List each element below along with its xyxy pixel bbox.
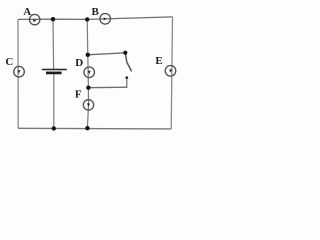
wire left edge (17, 19, 19, 128)
svg-text:B: B (92, 6, 100, 18)
lamp A (circle with arrow) (30, 14, 40, 24)
wire switch lower (from stub back to middle branch) (88, 86, 127, 89)
label E (155, 55, 162, 67)
svg-text:D: D (75, 57, 83, 69)
label A (23, 6, 31, 18)
junction dot (bottom wire, battery branch) (52, 126, 56, 130)
junction dot (middle branch, switch upper wire) (86, 53, 90, 57)
wire top (left corner to right corner) (18, 17, 173, 20)
label D (75, 57, 83, 69)
wire battery branch lower (53, 73, 55, 128)
svg-text:F: F (75, 89, 82, 101)
junction dot (top wire, middle branch) (85, 17, 89, 21)
wire battery branch upper (52, 19, 55, 69)
label B (92, 6, 100, 18)
wire right edge (171, 17, 172, 129)
lamp D (circle with arrow) (84, 67, 95, 78)
wire switch upper (to switch top terminal) (88, 53, 126, 55)
battery B1 (cell: long top plate, short thick bottom plate) (42, 70, 67, 73)
label F (75, 89, 82, 101)
switch S1 lower terminal stub (125, 76, 128, 87)
lamp C (circle with arrow) (14, 66, 25, 77)
wire middle branch (through D and F) (87, 19, 88, 128)
svg-text:C: C (5, 56, 13, 68)
junction dot (bottom wire, middle branch) (85, 126, 89, 130)
switch S1 (open knife switch) blade (125, 53, 131, 71)
lamp E (circle with arrow) (165, 66, 176, 77)
wire bottom (18, 127, 171, 130)
junction dot (switch top terminal) (123, 51, 127, 55)
junction dot (top wire, battery branch) (51, 17, 55, 21)
label C (5, 56, 13, 68)
svg-text:E: E (155, 55, 162, 67)
lamp B (circle with arrow) (100, 13, 111, 24)
junction dot (middle branch, switch lower wire) (86, 86, 90, 90)
lamp F (circle with arrow) (83, 100, 93, 110)
svg-text:A: A (23, 6, 31, 18)
